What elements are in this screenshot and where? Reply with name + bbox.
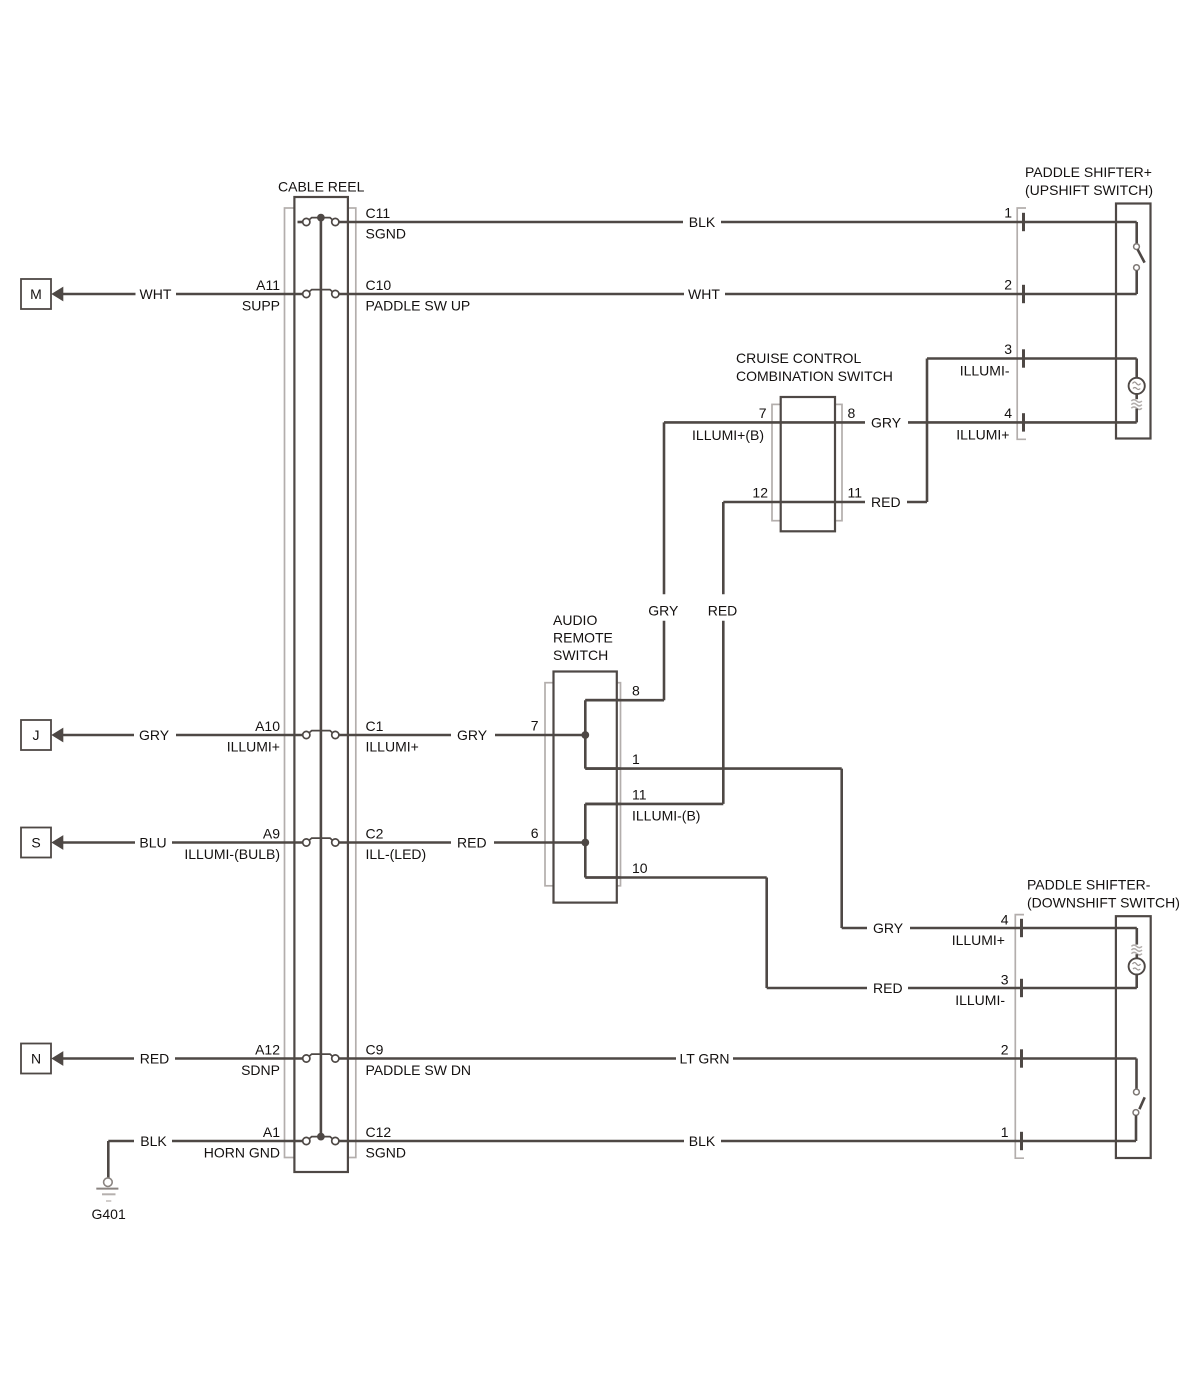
wire RED to downshift pin 3 <box>908 987 1137 990</box>
svg-text:1: 1 <box>632 751 640 767</box>
svg-text:CRUISE CONTROL: CRUISE CONTROL <box>736 350 861 366</box>
wire LT GRN : cable reel C9 to downshift pin 2 <box>339 1057 1137 1060</box>
cable reel internal SGND bus <box>320 218 323 1137</box>
svg-text:GRY: GRY <box>648 603 679 619</box>
connector M <box>21 279 63 309</box>
wire label RED (cruise pin 11) <box>871 494 901 510</box>
svg-text:M: M <box>30 286 42 302</box>
upshift pin numbers <box>1004 205 1012 421</box>
svg-text:REMOTE: REMOTE <box>553 630 613 646</box>
svg-text:3: 3 <box>1001 972 1009 988</box>
svg-text:C1: C1 <box>366 718 384 734</box>
wire GRY : connector J to cable reel A10 <box>63 734 303 737</box>
svg-text:BLU: BLU <box>139 835 166 851</box>
svg-text:1: 1 <box>1004 205 1012 221</box>
svg-text:8: 8 <box>632 683 640 699</box>
label G401 <box>92 1206 126 1222</box>
label CABLE REEL <box>278 179 365 195</box>
svg-text:2: 2 <box>1004 277 1012 293</box>
svg-text:A9: A9 <box>263 826 280 842</box>
upshift illumination bulb <box>1129 359 1145 423</box>
svg-text:C2: C2 <box>366 826 384 842</box>
connector N <box>21 1044 63 1074</box>
wire label GRY (downshift pin 4) <box>873 920 904 936</box>
svg-text:1: 1 <box>1001 1124 1009 1140</box>
cable reel pin pair A9-C2 <box>303 838 339 846</box>
svg-text:C9: C9 <box>366 1042 384 1058</box>
paddle shifter+ (upshift switch) box <box>1116 204 1151 439</box>
svg-text:GRY: GRY <box>457 727 488 743</box>
wire label GRY (C1) <box>457 727 488 743</box>
ground G401 <box>96 1178 118 1201</box>
svg-text:RED: RED <box>871 494 901 510</box>
svg-text:GRY: GRY <box>873 920 904 936</box>
cable reel <box>285 197 356 1172</box>
svg-text:A12: A12 <box>255 1042 280 1058</box>
svg-text:SWITCH: SWITCH <box>553 647 608 663</box>
svg-text:(DOWNSHIFT SWITCH): (DOWNSHIFT SWITCH) <box>1027 895 1180 911</box>
connector S <box>21 828 63 858</box>
svg-text:PADDLE SW UP: PADDLE SW UP <box>366 298 471 314</box>
svg-text:PADDLE SW DN: PADDLE SW DN <box>366 1062 472 1078</box>
cruise control pin numbers <box>752 405 862 501</box>
svg-text:BLK: BLK <box>140 1133 167 1149</box>
downshift illumination bulb <box>1129 928 1145 988</box>
svg-text:ILLUMI-(B): ILLUMI-(B) <box>632 807 700 823</box>
svg-text:12: 12 <box>752 485 768 501</box>
svg-text:WHT: WHT <box>140 286 172 302</box>
svg-text:PADDLE SHIFTER-: PADDLE SHIFTER- <box>1027 877 1151 893</box>
svg-text:RED: RED <box>457 835 487 851</box>
wire label RED (N) <box>140 1051 170 1067</box>
wire WHT : cable reel C10 to upshift pin 2 <box>339 293 1137 296</box>
wire BLK : cable reel C12 to downshift pin 1 <box>339 1140 1136 1143</box>
svg-text:A1: A1 <box>263 1124 280 1140</box>
audio pin 11 label ILLUMI-(B) <box>632 807 700 823</box>
wire GRY to downshift pin 4 <box>910 927 1137 930</box>
svg-text:LT GRN: LT GRN <box>679 1051 729 1067</box>
svg-text:ILLUMI+: ILLUMI+ <box>227 739 280 755</box>
wire label BLK <box>689 214 716 230</box>
svg-text:COMBINATION SWITCH: COMBINATION SWITCH <box>736 368 893 384</box>
cable reel A-side pin labels <box>184 277 280 1161</box>
upshift connector pin ticks <box>1022 213 1025 432</box>
svg-text:RED: RED <box>873 980 903 996</box>
cable reel pin pair C11 <box>298 214 339 226</box>
svg-text:RED: RED <box>140 1051 170 1067</box>
wire : audio pin 1 to downshift GRY riser <box>585 769 867 928</box>
cruise pin 7 label ILLUMI+(B) <box>692 427 764 443</box>
svg-text:8: 8 <box>848 405 856 421</box>
svg-text:ILL-(LED): ILL-(LED) <box>366 846 427 862</box>
cable reel pin pair A11-C10 <box>303 290 339 298</box>
label AUDIO REMOTE SWITCH <box>553 612 613 663</box>
cable reel pin pair A1-C12 <box>303 1133 339 1145</box>
wire RED vertical label <box>708 603 738 619</box>
wire WHT : connector M to cable reel A11 <box>63 293 303 296</box>
svg-text:PADDLE SHIFTER+: PADDLE SHIFTER+ <box>1025 164 1152 180</box>
wire RED : cruise pins 12-11 row <box>723 502 927 594</box>
svg-text:AUDIO: AUDIO <box>553 612 597 628</box>
cable reel pin pair A10-C1 <box>303 731 339 739</box>
svg-text:4: 4 <box>1004 405 1012 421</box>
svg-text:ILLUMI+(B): ILLUMI+(B) <box>692 427 764 443</box>
downshift connector bracket <box>1015 915 1024 1159</box>
svg-text:SDNP: SDNP <box>241 1062 280 1078</box>
svg-text:GRY: GRY <box>139 727 170 743</box>
cruise control combination switch <box>772 397 842 531</box>
svg-text:7: 7 <box>759 405 767 421</box>
downshift connector pin ticks <box>1020 919 1023 1150</box>
label CRUISE CONTROL COMBINATION SWITCH <box>736 350 893 384</box>
wire BLK : ground G401 to cable reel A1 <box>108 1141 302 1178</box>
label PADDLE SHIFTER+ (UPSHIFT SWITCH) <box>1025 164 1153 198</box>
svg-text:C10: C10 <box>366 277 392 293</box>
audio switch lower branch (pins 11-6-10) <box>581 804 620 878</box>
svg-text:RED: RED <box>708 603 738 619</box>
svg-text:GRY: GRY <box>871 414 902 430</box>
svg-text:N: N <box>31 1051 41 1067</box>
wire : audio pin 10 to downshift RED riser <box>585 878 867 989</box>
svg-text:A10: A10 <box>255 718 280 734</box>
svg-text:2: 2 <box>1001 1042 1009 1058</box>
svg-text:G401: G401 <box>92 1206 126 1222</box>
connector J <box>21 720 63 750</box>
wire label RED (C2) <box>457 835 487 851</box>
svg-text:3: 3 <box>1004 341 1012 357</box>
upshift switch contact <box>1134 222 1145 294</box>
upshift connector bracket <box>1017 208 1026 439</box>
wire label BLK (ground) <box>140 1133 167 1149</box>
svg-text:ILLUMI-: ILLUMI- <box>960 363 1010 379</box>
wire BLK : cable reel C11 to upshift pin 1 <box>339 221 1137 224</box>
wire RED vertical lower part to audio pin 11 <box>585 621 723 804</box>
svg-text:6: 6 <box>531 825 539 841</box>
svg-text:C12: C12 <box>366 1124 392 1140</box>
svg-text:ILLUMI+: ILLUMI+ <box>952 932 1005 948</box>
cable reel pin pair A12-C9 <box>303 1054 339 1062</box>
audio remote switch <box>545 672 621 903</box>
svg-text:BLK: BLK <box>689 214 716 230</box>
svg-text:S: S <box>31 835 40 851</box>
paddle shifter- (downshift switch) box <box>1116 916 1151 1158</box>
svg-text:ILLUMI+: ILLUMI+ <box>366 739 419 755</box>
wire GRY vertical lower part to audio pin 8 <box>585 621 664 700</box>
wire label GRY (J) <box>139 727 170 743</box>
svg-text:CABLE REEL: CABLE REEL <box>278 179 365 195</box>
wire RED vertical riser to upshift pin 3 <box>927 359 1137 503</box>
svg-text:ILLUMI+: ILLUMI+ <box>956 426 1009 442</box>
wire RED : connector N to cable reel A12 <box>63 1057 303 1060</box>
svg-text:SGND: SGND <box>366 1145 406 1161</box>
svg-text:ILLUMI-: ILLUMI- <box>955 992 1005 1008</box>
wire label RED (downshift pin 3) <box>873 980 903 996</box>
svg-text:BLK: BLK <box>689 1133 716 1149</box>
svg-text:WHT: WHT <box>688 286 720 302</box>
svg-text:(UPSHIFT SWITCH): (UPSHIFT SWITCH) <box>1025 182 1153 198</box>
audio remote switch pin numbers <box>531 683 648 876</box>
audio switch upper branch (pins 8-7-1) <box>581 700 620 768</box>
svg-text:11: 11 <box>632 786 647 802</box>
downshift pin numbers <box>1001 912 1009 1141</box>
svg-text:7: 7 <box>531 718 539 734</box>
wire GRY : cruise pins 7-8 row to upshift pin 4 <box>664 422 1137 594</box>
label PADDLE SHIFTER- (DOWNSHIFT SWITCH) <box>1027 877 1180 911</box>
wire GRY : cable reel C1 to audio pin 7 <box>339 734 585 737</box>
wire label GRY (cruise pin 8) <box>871 414 902 430</box>
upshift pin labels ILLUMI- / ILLUMI+ <box>956 363 1010 443</box>
svg-text:HORN GND: HORN GND <box>204 1145 280 1161</box>
wire BLU : connector S to cable reel A9 <box>63 841 303 844</box>
downshift switch contact <box>1133 1059 1145 1142</box>
cable reel C-side pin labels <box>366 205 472 1161</box>
downshift pin labels ILLUMI+ / ILLUMI- <box>952 932 1006 1008</box>
svg-text:11: 11 <box>848 485 863 501</box>
svg-text:SUPP: SUPP <box>242 298 280 314</box>
svg-text:C11: C11 <box>366 205 391 221</box>
wire RED : cable reel C2 to audio pin 6 <box>339 841 585 844</box>
svg-text:10: 10 <box>632 860 648 876</box>
wire label BLK (bottom) <box>689 1133 716 1149</box>
wire label BLU <box>139 835 166 851</box>
wire label WHT (right) <box>688 286 720 302</box>
svg-text:SGND: SGND <box>366 226 406 242</box>
svg-text:4: 4 <box>1001 912 1009 928</box>
svg-text:J: J <box>33 727 40 743</box>
wire label LT GRN <box>679 1051 729 1067</box>
wire label WHT (left) <box>140 286 172 302</box>
svg-text:A11: A11 <box>256 277 280 293</box>
svg-text:ILLUMI-(BULB): ILLUMI-(BULB) <box>184 846 280 862</box>
wire GRY vertical label <box>648 603 679 619</box>
